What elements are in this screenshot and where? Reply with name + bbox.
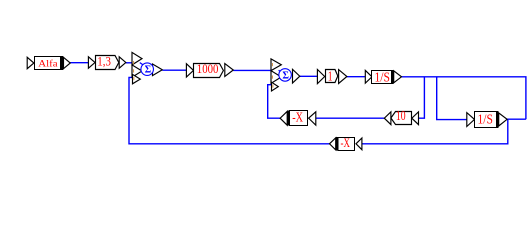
svg-text:10: 10 bbox=[396, 108, 406, 123]
wire W2: 1,3 out to sum U1 input 1 bbox=[126, 62, 133, 64]
sum U1 port mark 2 bbox=[133, 69, 135, 72]
block 1000 body bbox=[194, 64, 224, 78]
wire W1: Alfa out to 1,3 in bbox=[70, 62, 88, 64]
svg-text:-X: -X bbox=[292, 109, 303, 124]
sum U1 circle bbox=[141, 63, 154, 76]
integrator 1/S no.2 output bar bbox=[497, 111, 499, 128]
inverter -X no.2 output bar bbox=[336, 137, 339, 151]
wire W4: 1000 out to sum U2 input 1 bbox=[233, 69, 271, 71]
svg-text:Σ: Σ bbox=[282, 70, 289, 81]
inverter -X no.2 body bbox=[338, 138, 355, 151]
wire tick into sum U2 port bbox=[279, 70, 283, 73]
wire W8: branch down to gain 10 input bbox=[419, 77, 425, 118]
sum U2 input port 1 bbox=[271, 59, 281, 71]
svg-text:1: 1 bbox=[328, 68, 333, 83]
sum U2 input port 3 bbox=[272, 82, 279, 91]
wire W10: inverter -X no.1 out up to sum U2 input 3 bbox=[268, 85, 280, 119]
wire W13: junction down from 1/S no.2 out to row3 bbox=[362, 119, 508, 144]
integrator 1/S no.1 output bar bbox=[392, 70, 394, 84]
inverter -X no.1 body bbox=[290, 111, 308, 126]
svg-text:Alfa: Alfa bbox=[38, 58, 57, 69]
gain 10 body bbox=[391, 112, 412, 125]
svg-text:-X: -X bbox=[341, 136, 351, 150]
integrator 1/S no.1 body bbox=[372, 71, 392, 84]
integrator 1/S no.2 output port bbox=[499, 113, 507, 126]
sum U2 output port bbox=[293, 69, 300, 83]
sum U1 input port 1 bbox=[132, 52, 142, 65]
block Alfa input port bbox=[27, 57, 34, 68]
sum U2 circle bbox=[279, 69, 292, 82]
block 1 output port bbox=[339, 70, 347, 84]
svg-text:1000: 1000 bbox=[197, 62, 219, 76]
integrator 1/S no.2 body bbox=[475, 112, 497, 128]
block 1000 output port bbox=[225, 64, 234, 77]
sum U2 port mark 3 bbox=[272, 85, 274, 88]
svg-text:1/S: 1/S bbox=[375, 70, 390, 85]
block 1 input port bbox=[317, 70, 324, 84]
wire W7: row1 long wire from 1/S no.1 out to right corner bbox=[402, 77, 526, 119]
gain 10 output port bbox=[384, 112, 391, 125]
svg-text:1/S: 1/S bbox=[478, 111, 493, 126]
integrator 1/S no.1 output port bbox=[394, 71, 402, 83]
block 1,3 input port bbox=[88, 57, 95, 68]
sum U1 output port bbox=[153, 64, 163, 76]
svg-text:Σ: Σ bbox=[145, 65, 152, 76]
sum U1 input port 2 bbox=[132, 65, 142, 77]
block 1 body bbox=[326, 70, 338, 83]
wire W6: block 1 out to integrator 1/S no.1 in bbox=[347, 76, 365, 78]
inverter -X no.2 input port bbox=[356, 138, 362, 150]
block Alfa body bbox=[35, 57, 61, 70]
block 1,3 body bbox=[96, 56, 119, 70]
wire W9: branch down to integrator 1/S no.2 input bbox=[437, 77, 467, 120]
integrator 1/S no.2 input port bbox=[467, 113, 475, 127]
sum U1 port mark 1 bbox=[133, 61, 135, 64]
sum U2 port mark 1 bbox=[271, 63, 273, 66]
block Alfa output bar bbox=[61, 56, 64, 70]
sum U1 input port 3 bbox=[133, 74, 141, 83]
svg-text:1,3: 1,3 bbox=[97, 55, 111, 69]
inverter -X no.1 output bar bbox=[288, 111, 290, 126]
block Alfa output port bbox=[64, 57, 71, 68]
wire W12: integrator 1/S no.2 out to right corner bbox=[507, 118, 526, 120]
wire W11: gain 10 out to inverter -X no.1 in bbox=[316, 117, 385, 119]
sum U2 input port 2 bbox=[271, 71, 281, 84]
integrator 1/S no.1 input port bbox=[365, 70, 372, 83]
inverter -X no.1 output port bbox=[280, 111, 287, 125]
wire W3: sum U1 out to 1000 in bbox=[162, 69, 186, 71]
inverter -X no.1 input port bbox=[309, 112, 316, 125]
wire tick into sum U1 port bbox=[140, 63, 144, 66]
sum U1 port mark 3 bbox=[133, 77, 135, 80]
block 1000 input port bbox=[186, 64, 193, 77]
block 1,3 output port bbox=[119, 57, 126, 68]
gain 10 input port bbox=[412, 112, 419, 125]
wire W14: row3 from inverter -X no.2 out to left riser into sum U1 input 3 bbox=[129, 77, 330, 143]
wire W5: sum U2 out to block 1 in bbox=[300, 75, 318, 77]
sum U2 port mark 2 bbox=[271, 76, 273, 79]
inverter -X no.2 output port bbox=[330, 138, 336, 150]
